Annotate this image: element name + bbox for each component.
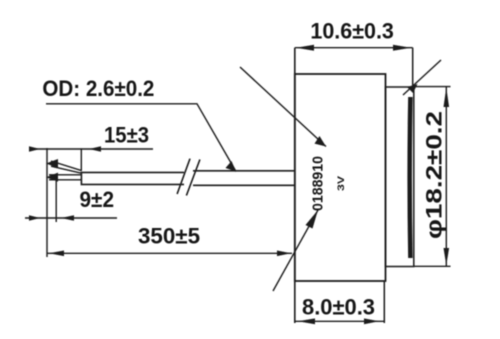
probe body outline bbox=[295, 74, 386, 281]
svg-text:0188910: 0188910 bbox=[310, 156, 327, 211]
extension line cap right top x=412.7 bbox=[412, 48, 414, 87]
dimension line 15±3 bbox=[29, 146, 153, 151]
extension line left tip x=47 bbox=[46, 148, 48, 257]
svg-text:3V: 3V bbox=[336, 175, 347, 191]
svg-text:9±2: 9±2 bbox=[80, 187, 115, 212]
leader to end cap corner bbox=[403, 60, 441, 95]
cable tube right part bbox=[193, 171, 295, 186]
extension line phi top y=86.6 bbox=[413, 86, 451, 88]
cable tube left part bbox=[81, 172, 184, 184]
svg-text:OD: 2.6±0.2: OD: 2.6±0.2 bbox=[42, 76, 154, 101]
svg-text:8.0±0.3: 8.0±0.3 bbox=[302, 295, 375, 320]
end cap outline bbox=[386, 87, 414, 267]
dimension line phi18.2±0.2 bbox=[444, 87, 450, 267]
leader to body marking lower bbox=[273, 210, 318, 291]
svg-text:350±5: 350±5 bbox=[138, 224, 200, 249]
dimension line 8.0±0.3 bbox=[295, 318, 385, 324]
dimension line 350±5 bbox=[47, 251, 292, 257]
end cap inner arc bbox=[407, 97, 412, 258]
extension line body right edge below x=384.3 bbox=[383, 281, 385, 323]
extension line x=56.2 for 9 dim bbox=[55, 181, 57, 222]
dimension line 9±2 bbox=[25, 215, 117, 220]
dimension line 10.6±0.3 bbox=[295, 45, 413, 51]
cable break symbol bbox=[177, 159, 200, 196]
lower stripped wire bbox=[46, 173, 81, 182]
leader to body marking upper bbox=[240, 67, 326, 147]
upper stripped wire bbox=[46, 159, 81, 173]
extension line body left edge x=294.8 full bbox=[294, 48, 296, 323]
leader OD label bbox=[46, 104, 236, 172]
svg-text:φ18.2±0.2: φ18.2±0.2 bbox=[422, 111, 447, 239]
svg-text:15±3: 15±3 bbox=[104, 123, 149, 148]
svg-text:10.6±0.3: 10.6±0.3 bbox=[310, 19, 394, 44]
extension line phi bottom y=266.3 bbox=[413, 265, 451, 267]
extension line cable start x=81.3 bbox=[80, 148, 82, 171]
